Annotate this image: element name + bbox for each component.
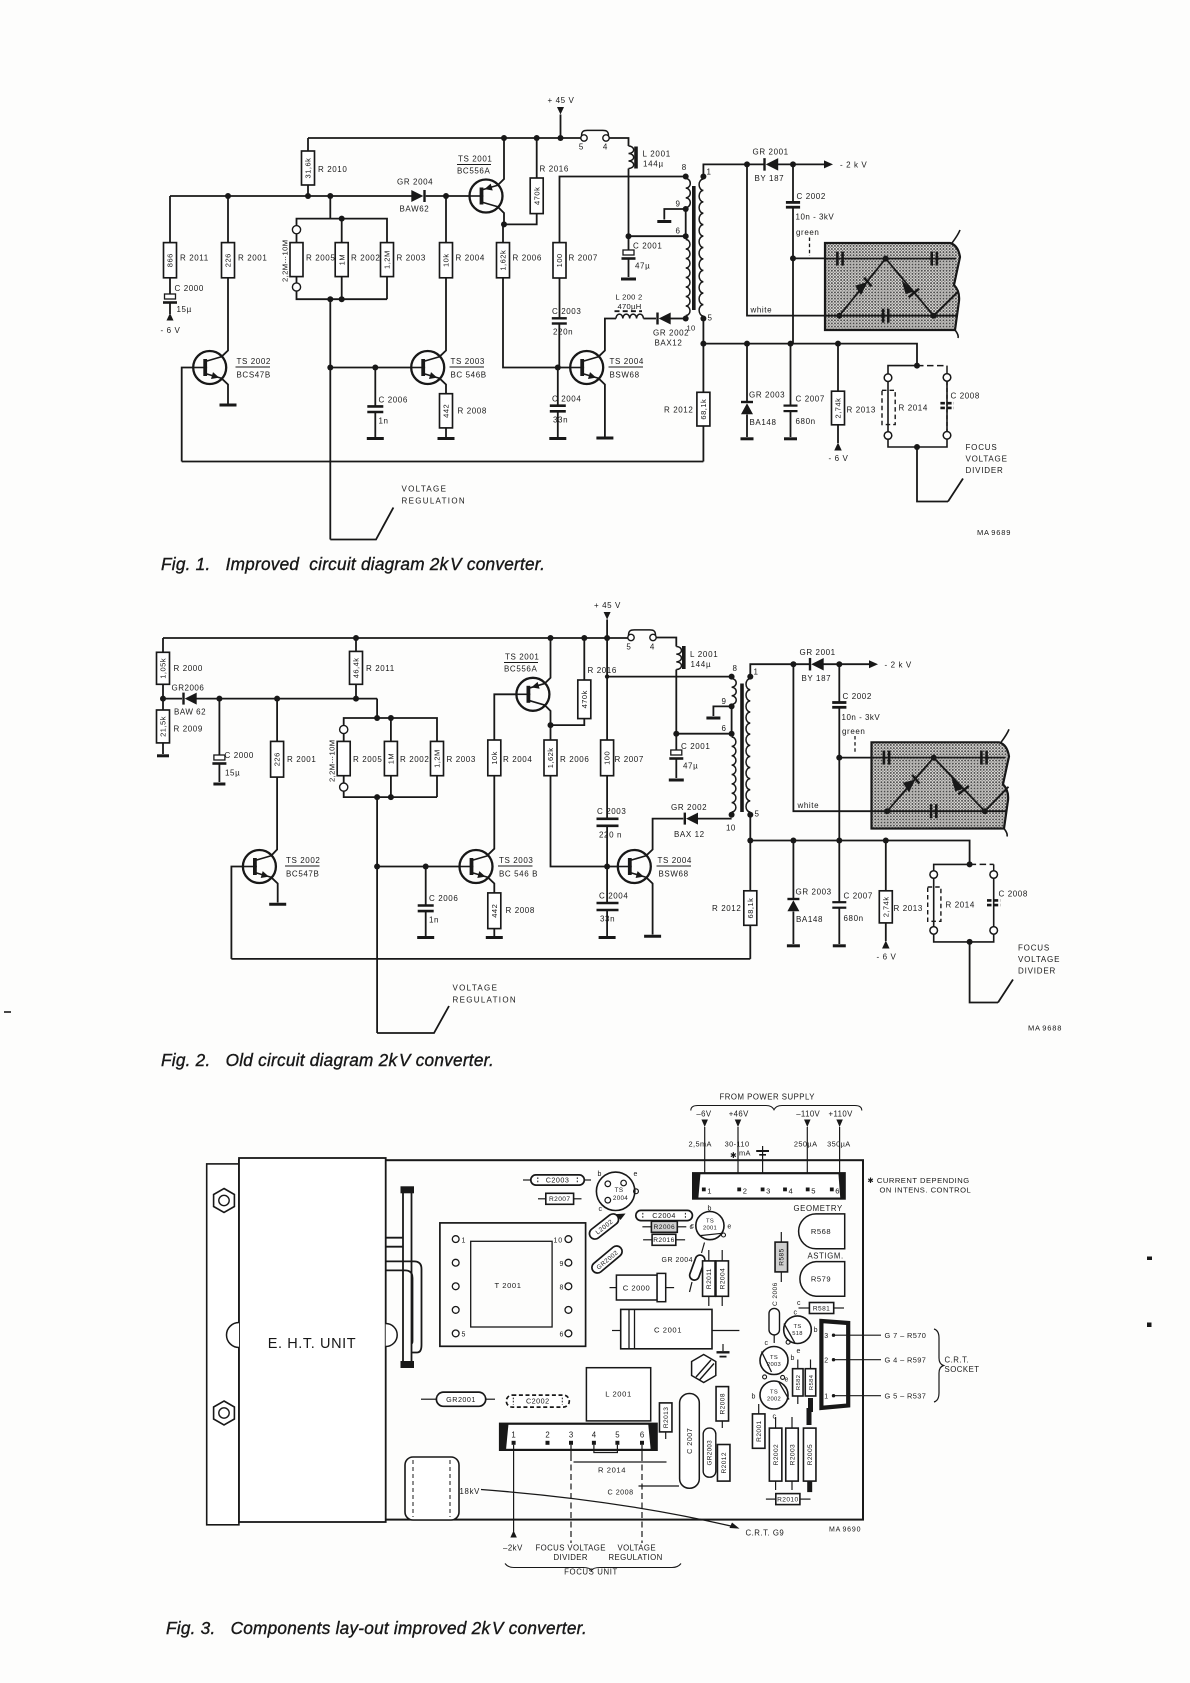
svg-text:R585: R585 [779,1248,786,1265]
resistor R2011 46,4k (fig2) [350,638,395,699]
wire C2001 node to pin6 [629,235,686,237]
svg-text:1: 1 [824,1393,829,1400]
svg-text:R 2016: R 2016 [588,666,617,675]
transistor TS2002 (layout) [752,1381,790,1421]
label R2016 wire note [0,0,1,1]
wire TS2003 base rail [330,367,411,369]
transformer pin10 (fig2) [729,812,735,818]
svg-text:REGULATION: REGULATION [402,497,466,506]
hex nut (layout) [692,1355,716,1383]
svg-text:TS 2003: TS 2003 [451,357,485,366]
svg-text:1,2M: 1,2M [383,250,392,269]
resistor R2005 (layout) [803,1408,816,1492]
wire L2001 to C2001 node [628,169,630,237]
svg-text:C 2008: C 2008 [999,890,1028,899]
T2001 pin labels [462,1237,565,1338]
T2001 pad L1 [452,1236,459,1243]
diode GR2001 BY187 [753,148,789,184]
capacitor in green lead (right) [932,252,937,266]
connector strip top [693,1173,845,1198]
ground C2000 (fig2) [213,783,225,786]
wire to focus divider callout (fig2) [970,942,998,1003]
svg-text:R568: R568 [811,1227,831,1236]
svg-text:R 2006: R 2006 [560,755,589,764]
node TS2001 collector/R2016/R2006 [501,221,507,227]
svg-text:2,74k: 2,74k [834,398,843,419]
wire GR2001 to -2kV [778,163,825,165]
svg-text:R 2011: R 2011 [366,664,395,673]
svg-text:REGULATION: REGULATION [453,996,517,1005]
terminal -2kV (layout) [503,1445,523,1553]
transformer pin8 (fig2) [729,664,738,680]
terminal +46V (layout) [725,1110,751,1190]
svg-text:GEOMETRY: GEOMETRY [794,1204,843,1213]
wire TS2002 base loop (fig2) [231,867,243,959]
wire bias to divider (fig2) [376,699,378,718]
svg-text:R2001: R2001 [756,1420,763,1441]
ground C2006 (fig2) [417,936,434,939]
svg-text:FOCUS UNIT: FOCUS UNIT [564,1568,618,1577]
svg-text:R2011: R2011 [706,1268,713,1289]
wire R2001 to TS2002 collector [222,278,228,357]
node TS2001 emitter rail (fig2) [548,635,554,641]
wire GR2002 to pin10 (fig2) [697,818,731,820]
svg-text:9: 9 [722,697,727,706]
potentiometer R2005 2,2M-10M [281,226,336,292]
node R2000 bottom [160,696,166,702]
wire TS2001 collector [498,207,504,224]
terminal C2007 bottom (fig2) [833,944,846,947]
terminal -6V R2013 [829,425,849,463]
svg-text:C 2008: C 2008 [951,392,980,401]
node R2010 top [501,135,507,141]
svg-text:68,1k: 68,1k [699,399,708,420]
capacitor C2008 dashed (fig2) [987,878,1028,926]
capacitor C2004 33n (fig2) [597,867,629,937]
svg-text:15µ: 15µ [225,769,240,778]
ground pin3 (layout) [756,1146,769,1189]
svg-text:DIVIDER: DIVIDER [966,466,1004,475]
transformer T primary pin8 [682,163,689,180]
diode GR2002 BAX12 [653,313,689,348]
svg-text:C 2001: C 2001 [681,742,710,751]
svg-text:8: 8 [682,163,687,172]
node on white wire right [931,313,937,319]
node +45V/R2007 rail (fig2) [604,635,610,641]
svg-text:+110V: +110V [829,1110,854,1119]
node R2001 top (fig2) [274,696,280,702]
wire L2001 down to C2001 node (fig2) [675,670,677,735]
CRT diode left (on diagonal) [839,259,885,316]
arrow to CRT G9 [481,1490,784,1538]
focus divider plug R2014/C2008 (fig2) [930,864,998,942]
node divider top R2002 [339,216,345,222]
inductor L2001 (layout) [586,1368,650,1421]
capacitor C2002 10n-3kV [786,164,835,258]
svg-text:BSW68: BSW68 [659,870,689,879]
svg-text:18kV: 18kV [460,1487,481,1496]
svg-text:Fig. 3. Components lay-out i: Fig. 3. Components lay-out improved 2k V… [166,1618,587,1638]
capacitor C2002 (layout) [506,1395,569,1407]
transformer winding 6-10 [686,240,690,316]
ground TS2004 emitter (fig2) [644,935,661,938]
svg-text:1M: 1M [387,753,396,764]
svg-text:470k: 470k [580,690,589,708]
svg-text:1,05k: 1,05k [159,658,168,679]
CRT socket (layout) [821,1321,848,1408]
node white-wire tap [744,161,750,167]
svg-text:c: c [765,1340,769,1347]
svg-text:ASTIGM.: ASTIGM. [808,1252,844,1261]
node R2013 top (fig2) [883,838,889,844]
wire TS2002 emitter to ground [222,379,228,404]
wire to focus voltage divider [917,447,948,502]
svg-text:21,5k: 21,5k [159,716,168,737]
svg-text:10k: 10k [442,253,451,267]
capacitor C2003 220n (fig2) [597,807,627,867]
node C2004 tap [555,365,561,371]
callout voltage regulation [330,485,466,540]
svg-text:31,6k: 31,6k [304,158,313,179]
svg-text:C 2002: C 2002 [797,192,826,201]
svg-text:TS 2002: TS 2002 [286,856,320,865]
transformer pin9 + ground (fig2) [706,697,734,718]
node R2014 top (fig2) [967,861,973,867]
ground TS2002 emitter (fig2) [269,903,286,906]
svg-text:FROM POWER SUPPLY: FROM POWER SUPPLY [720,1093,816,1102]
svg-text:100: 100 [555,253,564,267]
cooling pipe A (rod) [401,1186,415,1368]
wire white lead [747,164,825,315]
wire divider bottom bus [297,291,388,299]
svg-text:VOLTAGE: VOLTAGE [453,984,499,993]
svg-text:1n: 1n [379,417,389,426]
ground R2008 [438,437,455,440]
node C2001 [626,233,632,239]
svg-text:C 2002: C 2002 [843,692,872,701]
transformer T2001 outline [440,1223,586,1346]
wire top rail (fig2) [163,637,628,639]
svg-text:442: 442 [490,904,499,918]
node C2006 tap (fig2) [423,864,429,870]
svg-text:8: 8 [560,1285,565,1292]
svg-text:C 2003: C 2003 [597,807,626,816]
svg-text:BC 546B: BC 546B [451,371,487,380]
svg-text:C 2001: C 2001 [633,242,662,251]
svg-text:R 2002: R 2002 [400,755,429,764]
svg-text:R2007: R2007 [549,1196,570,1203]
node divider bottom (fig2) [374,794,380,800]
fuse (pins 5-4) [579,130,609,151]
svg-text:1: 1 [462,1237,467,1244]
node bottom rail left [700,341,706,347]
wire pin9 to pin6 [685,209,687,236]
svg-text:C 2006: C 2006 [772,1282,779,1306]
transistor TS2001 BC556A (fig2) [504,653,549,711]
margin marks [1147,1257,1152,1328]
svg-text:C 2007: C 2007 [844,892,873,901]
node +45V rail [558,135,564,141]
svg-text:white: white [750,306,773,315]
node apex on green wire [883,256,889,262]
resistor R2013 (layout) [659,1403,672,1439]
capacitor in white lead [883,309,888,323]
svg-text:–6V: –6V [696,1110,711,1119]
resistor R2008 442 (fig2) [488,878,535,936]
wire pin5 to bottom rail [702,319,704,393]
wire pin9 to pin6 (fig2) [731,706,733,733]
svg-text:R 2014: R 2014 [598,1466,626,1475]
svg-text:250µA: 250µA [794,1140,818,1149]
svg-text:6: 6 [722,724,727,733]
svg-text:220n: 220n [553,328,573,337]
transformer pin1 [700,168,711,180]
capacitor C2007 680n (fig2) [832,841,873,945]
svg-text:c: c [691,1223,695,1230]
svg-text:R 2014: R 2014 [899,404,928,413]
bump right on EHT [386,1324,398,1347]
svg-text:680n: 680n [844,914,864,923]
svg-text:R2005: R2005 [807,1444,814,1465]
node TS2001 collector/R2016 (fig2) [548,722,554,728]
ground TS2002 emitter [220,404,237,407]
svg-text:BAW62: BAW62 [400,205,430,214]
inductor L2001 144u (fig2) [676,646,718,670]
svg-text:R 2008: R 2008 [458,407,487,416]
svg-text:C2004: C2004 [652,1211,676,1220]
svg-text:R 2000: R 2000 [174,664,203,673]
svg-text:R 2001: R 2001 [287,755,316,764]
hex bolt top [214,1189,235,1213]
svg-text:GR 2001: GR 2001 [800,648,836,657]
svg-text:C 2007: C 2007 [685,1428,694,1454]
resistor R2002 1M (fig2) [384,718,429,797]
svg-text:3: 3 [824,1333,829,1340]
svg-text:- 6 V: - 6 V [877,953,897,962]
svg-text:R 2016: R 2016 [540,165,569,174]
node divider top R2002 (fig2) [388,715,394,721]
svg-text:VOLTAGE: VOLTAGE [1018,955,1060,964]
ground C2004 [549,437,566,440]
resistor R2012 68,1k [664,392,710,461]
ground R2009 [157,754,169,757]
svg-text:DIVIDER: DIVIDER [1018,967,1056,976]
resistor R2001 226 [222,243,268,278]
wire G4-R597 [835,1356,926,1365]
wire C2002 to bottom rail (fig2) [838,758,840,841]
node on white wire left [884,808,890,814]
wire divider top bus [297,219,388,243]
svg-text:e: e [727,1224,732,1231]
capacitor C2000 15u [163,284,204,314]
svg-text:R 2003: R 2003 [447,755,476,764]
resistor R2007 100 (fig2) [601,740,644,819]
wire feedback bottom (fig2) [231,958,750,960]
diode GR2002 (layout) [590,1244,625,1276]
svg-text:144µ: 144µ [643,160,664,169]
svg-text:R2016: R2016 [653,1237,674,1244]
ground R2008 (fig2) [486,936,503,939]
svg-text:- 2 k V: - 2 k V [840,161,867,170]
svg-text:1: 1 [511,1431,515,1440]
svg-text:10: 10 [726,824,736,833]
wire divider top bus (fig2) [344,718,437,741]
capacitor C2001 (layout) [612,1309,739,1348]
resistor R2012 (layout) [717,1445,730,1482]
wire GR2002 to pin 10 [670,318,686,320]
resistor R2014 (dashed) [882,390,928,424]
capacitor C2000 (layout) [610,1273,675,1301]
note current depending [867,1176,971,1195]
resistor R2003 (layout) [786,1417,799,1490]
svg-text:6: 6 [676,227,681,236]
svg-text:6: 6 [560,1332,565,1339]
svg-text:FOCUS: FOCUS [1018,944,1050,953]
resistor R2002 1M [335,219,380,300]
node C2007 top (fig2) [836,838,842,844]
terminal GR2003 bottom [741,437,754,440]
svg-text:+ 45 V: + 45 V [548,96,575,105]
wire diagonal to torn edge [934,291,959,316]
PCB board outline [239,1160,863,1519]
node C2000 top (fig2) [216,696,222,702]
ground C2006 [367,437,384,440]
svg-text:R 2003: R 2003 [397,254,426,263]
wire green lead (fig2) [839,757,871,759]
svg-text:green: green [796,228,819,237]
inductor L2002 (layout) [587,1207,627,1242]
svg-text:C2002: C2002 [526,1397,550,1406]
svg-text:4: 4 [789,1186,793,1195]
wire G5-R537 [835,1392,926,1401]
node pin8 tap (fig2) [605,674,609,678]
T2001 pad L2 [452,1259,459,1266]
node C2006 tap [372,365,378,371]
wire fuse to L2001 [609,138,628,146]
svg-text:TS: TS [770,1355,778,1361]
node divider top [327,193,333,199]
svg-text:226: 226 [224,253,233,267]
wire TS2001 base to R2004 (fig2) [494,694,516,740]
svg-text:220 n: 220 n [599,831,622,840]
wire bias rail (fig2) [219,698,377,700]
node voltage-reg crossing (fig2) [374,864,380,870]
callout voltage regulation (fig2) [377,984,517,1034]
node GR2003 top [744,341,750,347]
resistor R2001 226 (fig2) [271,699,317,778]
wire C2002 node to bottom rail [792,258,794,343]
svg-text:2: 2 [545,1431,549,1440]
callout focus voltage divider (layout) [536,1445,606,1562]
svg-text:9: 9 [676,200,681,209]
T2001 pad R4 [565,1307,572,1314]
diode GR2003 BA148 (fig2) [787,841,831,945]
resistor R2011 (layout) [703,1250,716,1306]
diode GR2004 BAW62 [397,178,433,214]
capacitor C2003 (layout) [523,1175,591,1185]
svg-text:GR 2004: GR 2004 [662,1257,694,1264]
svg-text:GR 2003: GR 2003 [796,888,832,897]
wire pin1 to GR2001 (fig2) [750,664,810,676]
wire white lead (fig2) [793,664,871,811]
svg-text:R2013: R2013 [663,1407,670,1428]
svg-text:2001: 2001 [703,1226,717,1232]
svg-text:R 2012: R 2012 [664,406,693,415]
resistor R2008 442 [440,379,487,437]
svg-text:G 4 – R597: G 4 – R597 [885,1356,927,1365]
svg-text:- 6 V: - 6 V [829,454,849,463]
transformer secondary 1-5 (fig2) [746,679,750,812]
resistor R2016 (layout) [643,1234,685,1245]
svg-text:GR 2003: GR 2003 [749,391,785,400]
svg-text:C 2004: C 2004 [599,892,628,901]
svg-text:GR 2001: GR 2001 [753,148,789,157]
resistor R2001 (layout) [752,1404,765,1448]
svg-text:TS 2003: TS 2003 [499,856,533,865]
svg-text:680n: 680n [796,417,816,426]
svg-text:R 2005: R 2005 [306,254,335,263]
svg-text:GR 2002: GR 2002 [653,329,689,338]
ground C2004 (fig2) [599,936,616,939]
svg-text:R 2013: R 2013 [847,406,876,415]
terminal -6V (layout) [689,1110,712,1190]
pot R579 ASTIGM [800,1252,845,1297]
resistor R2004 (layout) [716,1250,729,1306]
transformer pin6 (fig2) [722,724,735,737]
wire TS2001 emitter to rail (fig2) [545,638,550,683]
resistor R2016 470k [504,138,569,224]
node R2013 top [835,341,841,347]
svg-text:L 2001: L 2001 [690,650,718,659]
wire white inside CRT [825,315,958,317]
wire R2007 column (fig2) [606,638,608,740]
node divider top (fig2) [374,715,380,721]
supply +45V terminal (fig2) [594,601,621,638]
svg-text:5: 5 [462,1332,467,1339]
svg-text:R581: R581 [813,1305,830,1312]
svg-text:10n - 3kV: 10n - 3kV [796,213,835,222]
wire mid bias rail [170,195,412,197]
svg-text:R2008: R2008 [720,1393,727,1414]
bracket R2014 (layout) [574,1445,667,1475]
wire divider to voltage regulation [329,299,331,539]
svg-text:DIVIDER: DIVIDER [554,1553,588,1562]
svg-text:TS 2004: TS 2004 [658,856,692,865]
resistor R2006 (layout) [642,1221,694,1232]
diode GR2003 (layout) [703,1428,716,1477]
svg-text:R 2002: R 2002 [351,254,380,263]
svg-text:GR2006: GR2006 [172,684,205,693]
svg-text:3: 3 [766,1186,770,1195]
svg-text:47µ: 47µ [683,762,698,771]
wire TS2001 emitter to rail [498,138,504,185]
node voltage-reg line crossing [327,365,333,371]
terminal -6V left [161,303,181,336]
CRT diode right (on diagonal) [934,758,985,812]
capacitor in white lead [931,804,936,818]
wire TS2004 emitter to ground [599,379,605,437]
wire GR2004 to TS2001 base [426,195,470,197]
label C2008 (layout) [608,1486,680,1497]
svg-text:- 2 k V: - 2 k V [885,661,912,670]
svg-text:R 2008: R 2008 [506,906,535,915]
svg-text:442: 442 [442,404,451,418]
svg-text:R 2012: R 2012 [712,904,741,913]
svg-text:C 2006: C 2006 [379,396,408,405]
svg-text:144µ: 144µ [691,660,712,669]
svg-text:b: b [814,1327,819,1334]
wire TS2004 collector to GR2002 (fig2) [647,819,684,856]
